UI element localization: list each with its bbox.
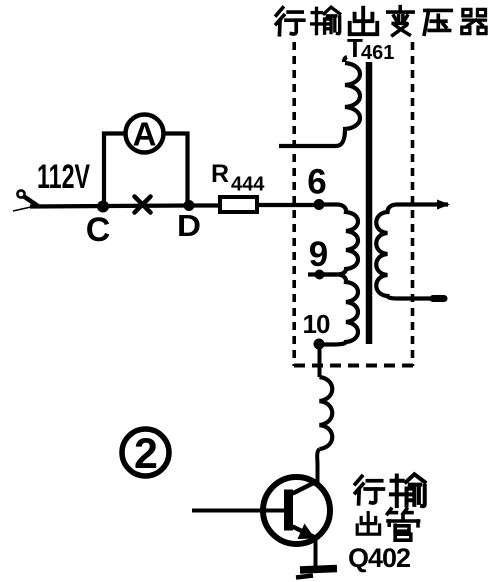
wire input to resistor xyxy=(30,206,220,207)
node 10 xyxy=(314,339,325,350)
arrow secondary bottom xyxy=(433,295,444,302)
dashed box bottom side xyxy=(294,364,416,368)
circled 2 annotation xyxy=(122,429,169,478)
svg-text:C: C xyxy=(86,211,111,249)
break mark X xyxy=(135,197,151,213)
ground xyxy=(296,569,337,578)
input terminal hook xyxy=(13,190,38,211)
node D xyxy=(184,200,195,211)
ammeter loop wire right xyxy=(165,134,188,206)
svg-text:R: R xyxy=(211,160,229,188)
arrow secondary top xyxy=(437,200,450,210)
primary winding 9-10 xyxy=(319,275,358,345)
transformer core T461 xyxy=(366,62,373,344)
resistor R444 xyxy=(220,197,257,212)
wire resistor to node 6 xyxy=(257,203,319,207)
wire emitter down xyxy=(314,537,318,567)
ammeter loop wire left xyxy=(104,134,124,207)
wire top winding lead left xyxy=(279,144,336,148)
node 6 xyxy=(314,199,325,210)
secondary winding xyxy=(376,205,448,299)
wire coil to collector xyxy=(317,449,319,482)
svg-text:6: 6 xyxy=(307,163,326,202)
label 行输出管 xyxy=(355,474,424,540)
svg-text:D: D xyxy=(177,208,201,243)
svg-text:2: 2 xyxy=(134,430,158,478)
wire node 10 down xyxy=(318,344,322,377)
title 行输出变压器 xyxy=(276,7,486,36)
wire base xyxy=(192,509,284,513)
dashed box right side xyxy=(411,42,415,366)
node 9 xyxy=(315,270,325,280)
svg-text:444: 444 xyxy=(231,174,265,196)
inductor collector lead xyxy=(320,377,333,449)
svg-text:10: 10 xyxy=(303,309,330,339)
svg-text:461: 461 xyxy=(361,42,394,64)
svg-text:9: 9 xyxy=(309,235,328,274)
svg-text:A: A xyxy=(133,116,157,153)
node C xyxy=(97,201,109,213)
label R444 xyxy=(211,160,265,196)
label T461 xyxy=(347,33,394,64)
primary winding 6-9 xyxy=(308,205,358,275)
primary winding top (above pin 6) xyxy=(336,57,360,146)
svg-text:Q402: Q402 xyxy=(348,543,410,573)
svg-text:112V: 112V xyxy=(37,158,90,196)
transistor Q402 xyxy=(263,477,330,544)
ammeter A xyxy=(126,115,164,153)
dashed box left side xyxy=(292,42,296,366)
